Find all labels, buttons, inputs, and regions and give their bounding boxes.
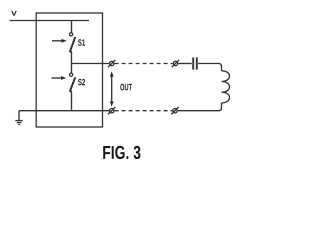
wire capacitor to top-right corner bbox=[198, 64, 221, 71]
wire dashed top bbox=[115, 63, 173, 65]
label S2 bbox=[78, 79, 85, 85]
terminal node bottom-right bbox=[171, 107, 178, 114]
node V supply label bbox=[11, 11, 16, 16]
label OUT bbox=[120, 84, 132, 91]
wire S2 bottom to ground rail bbox=[71, 91, 73, 110]
wire ground rail bbox=[19, 110, 110, 112]
wire inductor to bottom-right corner bbox=[218, 103, 222, 111]
inductor L bbox=[222, 71, 230, 103]
terminal node top-left bbox=[108, 60, 115, 67]
ground bbox=[15, 111, 22, 125]
wire S1 bottom to junction bbox=[71, 52, 73, 64]
wire node to capacitor bbox=[178, 63, 191, 65]
wire S2 top bbox=[71, 64, 73, 74]
capacitor C bbox=[193, 57, 197, 69]
wire bottom right rail bbox=[178, 110, 218, 112]
wire S1 top bbox=[71, 21, 73, 33]
converter block outline bbox=[36, 13, 102, 127]
label FIG. 3 bbox=[103, 146, 140, 159]
switch S2 bbox=[52, 73, 76, 92]
terminal node bottom-left bbox=[108, 107, 115, 114]
OUT double arrow bbox=[110, 71, 114, 106]
wire V supply rail bbox=[10, 20, 90, 22]
wire dashed bottom bbox=[115, 110, 173, 112]
label S1 bbox=[78, 39, 85, 45]
switch S1 bbox=[52, 33, 75, 53]
terminal node top-right bbox=[172, 60, 179, 67]
wire junction to output node bbox=[72, 63, 110, 65]
